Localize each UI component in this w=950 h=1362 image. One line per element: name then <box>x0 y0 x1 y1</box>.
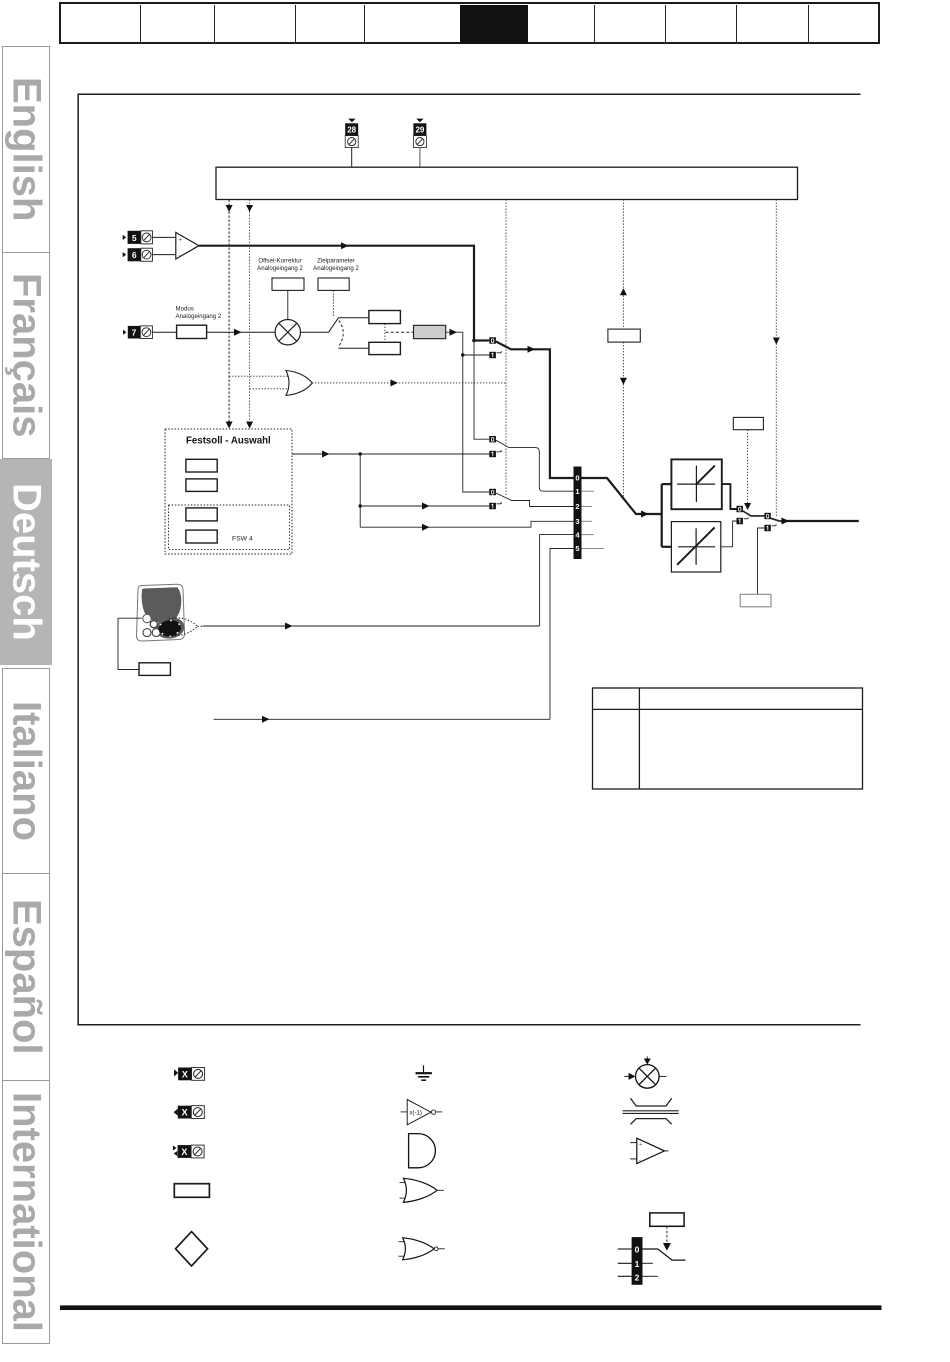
legend AND gate symbol <box>409 1134 436 1168</box>
parameter box above switch D <box>733 417 763 429</box>
legend multiplier symbol <box>624 1057 666 1089</box>
svg-text:Offset-Korrektur: Offset-Korrektur <box>258 258 301 265</box>
svg-text:28: 28 <box>347 126 356 135</box>
tab divider 5 <box>594 5 595 44</box>
terminal X7 <box>123 326 152 339</box>
dotted parameter line x=623 upper segment with up-arrow <box>622 200 624 330</box>
contact hook B1 <box>497 450 502 452</box>
svg-text:29: 29 <box>415 126 424 135</box>
terminal X28 <box>345 119 358 148</box>
sidebar tab Deutsch (active, gray) <box>0 459 52 665</box>
junction branch to C1 <box>359 504 362 507</box>
characteristic block lower (linear) <box>671 522 720 572</box>
OR gate (dotted control logic) <box>286 371 312 396</box>
wire lower block output to D1 <box>721 521 737 547</box>
switch square C0 (Festsoll source select) <box>489 489 496 495</box>
svg-text:+: + <box>179 237 182 243</box>
svg-text:1: 1 <box>575 487 579 496</box>
wire Modus box to multiplier <box>207 331 276 333</box>
svg-text:Festsoll - Auswahl: Festsoll - Auswahl <box>186 436 271 447</box>
active black tab cell <box>460 5 528 44</box>
Festsoll-Auswahl dotted box <box>165 429 292 554</box>
Festsoll parameter box 3 <box>186 508 217 521</box>
thin continuation wire down to B0 <box>474 341 489 440</box>
legend selector symbol parameter box <box>650 1213 684 1226</box>
tab divider 6 <box>665 5 666 44</box>
top register tab bar <box>59 2 880 44</box>
switch square B0 <box>489 436 496 442</box>
tab divider 7 <box>736 5 737 44</box>
legend NOR gate symbol <box>399 1238 445 1260</box>
wire X28 to bus <box>351 148 353 168</box>
svg-text:X: X <box>181 1147 187 1157</box>
terminal X29 <box>413 119 426 148</box>
svg-text:-: - <box>639 1158 641 1164</box>
dotted OR output wire to x=506 <box>312 382 506 384</box>
sidebar tab International <box>2 1080 51 1344</box>
Festsoll parameter box 4 <box>186 530 217 543</box>
parameter box on line x=623 <box>608 329 640 342</box>
multiplier (circle with X) <box>275 320 300 345</box>
thick main setpoint output wire <box>781 520 859 522</box>
junction thick wire at A0 <box>472 339 476 343</box>
svg-text:7: 7 <box>132 328 137 338</box>
keypad device <box>137 584 186 641</box>
diagram frame (top, left, bottom borders) <box>78 94 861 1025</box>
wire X7 to Modus box <box>152 331 176 333</box>
legend selector left stubs <box>618 1249 632 1276</box>
switch square D0 <box>737 506 743 512</box>
mode switch lower contact wire <box>338 347 369 349</box>
tab divider 8 <box>808 5 809 44</box>
switch square A1 <box>489 352 496 358</box>
legend selector right stubs <box>643 1263 658 1276</box>
parameter box Modus <box>177 325 207 338</box>
label box below keypad <box>139 663 170 676</box>
Festsoll inner dotted sub-box <box>169 505 290 550</box>
switch-D lever to E0 <box>743 511 765 516</box>
sidebar tab English <box>2 46 51 253</box>
svg-text:Zielparameter: Zielparameter <box>317 258 355 265</box>
wire selector input 5 from below <box>550 549 574 720</box>
svg-text:Analogeingang 2: Analogeingang 2 <box>176 313 222 320</box>
svg-text:x(-1): x(-1) <box>410 1110 422 1116</box>
terminal X5 <box>123 231 153 244</box>
wire keypad to label box <box>118 618 142 669</box>
svg-text:X: X <box>182 1069 188 1079</box>
switch square D1 <box>737 518 743 524</box>
parameter box Zielparameter <box>318 278 349 290</box>
svg-text:Modus: Modus <box>176 306 194 313</box>
junction Festsoll output <box>359 452 362 455</box>
wire E1 to parameter box below <box>758 528 765 594</box>
dotted parameter line x=776 with down-arrow <box>775 200 777 517</box>
bottom feed wire to selector input 5 <box>214 718 550 720</box>
svg-text:5: 5 <box>575 544 579 553</box>
mode switch dashed throw arc <box>339 321 343 346</box>
wire multiplier to mode switch <box>301 318 369 332</box>
wire offset box to multiplier <box>287 290 289 319</box>
dashed wire to gray box <box>386 331 414 333</box>
legend bidirectional terminal symbol <box>173 1145 204 1158</box>
svg-text:0: 0 <box>575 474 579 483</box>
thick analog signal wire from op-amp <box>199 246 474 341</box>
tab divider 1 <box>140 5 141 44</box>
wire selector input 4 from keypad <box>540 535 574 626</box>
tab divider 3 <box>295 5 296 44</box>
legend inverter symbol <box>401 1100 443 1125</box>
legend selector dashed control line <box>666 1226 668 1244</box>
dotted control line Zielparameter to switch <box>332 290 334 317</box>
legend selector black bar <box>632 1237 643 1285</box>
thick wire into A0 <box>474 339 489 341</box>
wire X5 to op-amp <box>152 236 176 238</box>
dotted parameter line to Festsoll (right) <box>249 200 251 429</box>
setpoint selector bar <box>574 467 582 560</box>
terminal X6 <box>123 248 153 261</box>
parameter box lower (mode b) <box>369 342 401 354</box>
svg-text:Analogeingang 2: Analogeingang 2 <box>313 265 359 272</box>
switch square B1 <box>489 451 496 457</box>
svg-text:X: X <box>182 1108 188 1118</box>
sidebar tab Italiano <box>2 668 51 874</box>
legend parameter box symbol <box>174 1184 209 1198</box>
svg-text:+: + <box>639 1142 642 1148</box>
switch-B lever and wire to selector input 1 <box>496 440 574 491</box>
wire branch to selector input 3 <box>360 521 573 527</box>
legend table <box>593 688 863 789</box>
ramp characteristic block upper <box>671 459 721 509</box>
dotted parameter line x=623 lower segment with down-arrow <box>622 342 624 496</box>
tab divider 2 <box>214 5 215 44</box>
svg-text:1: 1 <box>635 1259 640 1269</box>
parameter bus rectangle <box>216 167 798 199</box>
selector right stub 4 <box>582 534 595 536</box>
svg-text:2: 2 <box>635 1272 640 1282</box>
bottom rule <box>60 1305 882 1310</box>
switch-E lever <box>771 518 781 521</box>
parameter box offset correction <box>272 278 304 290</box>
sidebar tab Francais <box>2 252 51 459</box>
thick selector output lever wire <box>582 478 662 514</box>
switch-C lever to selector input 2 <box>496 493 574 507</box>
thick branch to both ramp blocks <box>661 484 663 547</box>
dotted link between mode boxes <box>384 324 386 343</box>
wire keypad to selector input 4 <box>203 625 540 627</box>
dotted OR input wires <box>229 375 288 377</box>
dotted balloon from keypad <box>168 618 204 636</box>
contact hook E1 <box>772 524 777 525</box>
selector right stub 3 <box>582 520 593 522</box>
svg-text:-: - <box>179 253 181 259</box>
wire X6 to op-amp <box>152 254 176 256</box>
legend comparator symbol <box>630 1138 668 1163</box>
switch square E1 <box>764 525 770 531</box>
switch square C1 <box>489 503 496 509</box>
thick wire upper block output to D0 <box>722 484 737 509</box>
thick switch-A lever and output wire <box>496 342 574 479</box>
svg-text:5: 5 <box>132 233 137 243</box>
Festsoll output wire to B1 <box>292 453 489 455</box>
svg-text:6: 6 <box>132 250 137 260</box>
legend ground symbol <box>416 1065 432 1080</box>
dotted parameter line x=506 (bus to switch) <box>505 200 507 497</box>
contact hook D1 <box>744 517 749 518</box>
svg-text:Analogeingang 2: Analogeingang 2 <box>257 265 303 272</box>
selector right stub 5 <box>582 548 605 550</box>
gray evaluation box <box>414 325 446 338</box>
switch square E0 <box>764 513 770 519</box>
Festsoll parameter box 1 <box>186 459 217 472</box>
wire X29 to bus <box>419 148 421 168</box>
legend limiter symbol <box>623 1098 679 1124</box>
contact hook A1 <box>497 351 502 353</box>
junction gray box line to switch A1 <box>461 353 464 356</box>
legend selector lever wire <box>643 1249 686 1260</box>
legend output terminal symbol <box>174 1106 205 1119</box>
switch square A0 <box>489 337 496 343</box>
parameter box below switch E <box>740 594 771 607</box>
svg-text:2: 2 <box>575 502 579 511</box>
branch wire down from Festsoll output <box>359 454 361 527</box>
sidebar tab Espanol <box>2 873 51 1081</box>
tab divider 4 <box>364 5 365 44</box>
legend input terminal symbol <box>174 1068 205 1081</box>
dotted parameter line to Festsoll (left) <box>228 200 230 429</box>
dotted control line from box to switch D <box>747 430 749 508</box>
parameter box upper (mode a) <box>369 311 401 324</box>
svg-text:FSW 4: FSW 4 <box>232 536 253 543</box>
contact hook C1 <box>497 502 502 504</box>
legend OR gate symbol <box>400 1178 445 1202</box>
wire gray box output <box>446 332 490 492</box>
selector right stub 2 <box>582 506 593 508</box>
wire branch to switch C1 <box>360 505 489 507</box>
svg-text:0: 0 <box>635 1244 640 1254</box>
wire gray box line to switch A1 <box>463 354 490 356</box>
selector right stub 1 <box>582 490 595 492</box>
svg-text:3: 3 <box>575 517 579 526</box>
op-amp differential input amplifier <box>176 232 199 259</box>
Festsoll parameter box 2 <box>186 479 217 492</box>
legend diamond symbol <box>176 1232 208 1266</box>
